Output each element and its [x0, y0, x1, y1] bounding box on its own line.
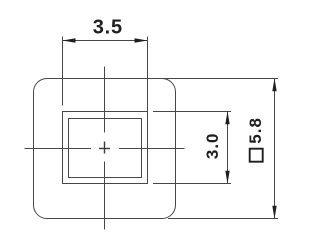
- dimension 3.5 line: [63, 40, 148, 42]
- dimension 3.0 extension line top: [153, 111, 231, 113]
- svg-text:3.0: 3.0: [203, 132, 222, 159]
- button inner frame: [69, 119, 142, 178]
- svg-text:3.5: 3.5: [93, 17, 123, 39]
- vertical centerline top segment: [104, 67, 106, 133]
- dimension 5.8 extension line bottom: [168, 218, 278, 220]
- dimension 3.0 extension line bottom: [153, 183, 231, 185]
- dimension 3.5 extension line right: [147, 37, 149, 112]
- dimension 5.8 extension line top: [163, 78, 278, 80]
- dimension 3.5 right arrow: [135, 38, 148, 42]
- dimension 3.0 top arrow: [225, 111, 229, 124]
- dimension 3.5 left arrow: [63, 38, 76, 42]
- dimension 5.8 square symbol: [250, 149, 263, 162]
- dimension 3.0 line: [227, 112, 229, 184]
- vertical centerline bottom segment: [104, 162, 106, 230]
- body outline (rounded square 5.8): [34, 79, 176, 219]
- dimension 3.5 extension line left: [62, 37, 64, 106]
- horizontal centerline right segment: [119, 148, 185, 150]
- center mark cross: [99, 142, 110, 154]
- dimension 5.8 top arrow: [272, 78, 276, 91]
- dimension 5.8 line: [274, 79, 276, 219]
- horizontal centerline left segment: [25, 148, 92, 150]
- dimension 5.8 bottom arrow: [272, 206, 276, 219]
- svg-text:5.8: 5.8: [246, 117, 265, 144]
- button outer frame (3.5 x 3.0): [63, 112, 148, 184]
- dimension 3.0 bottom arrow: [225, 171, 229, 184]
